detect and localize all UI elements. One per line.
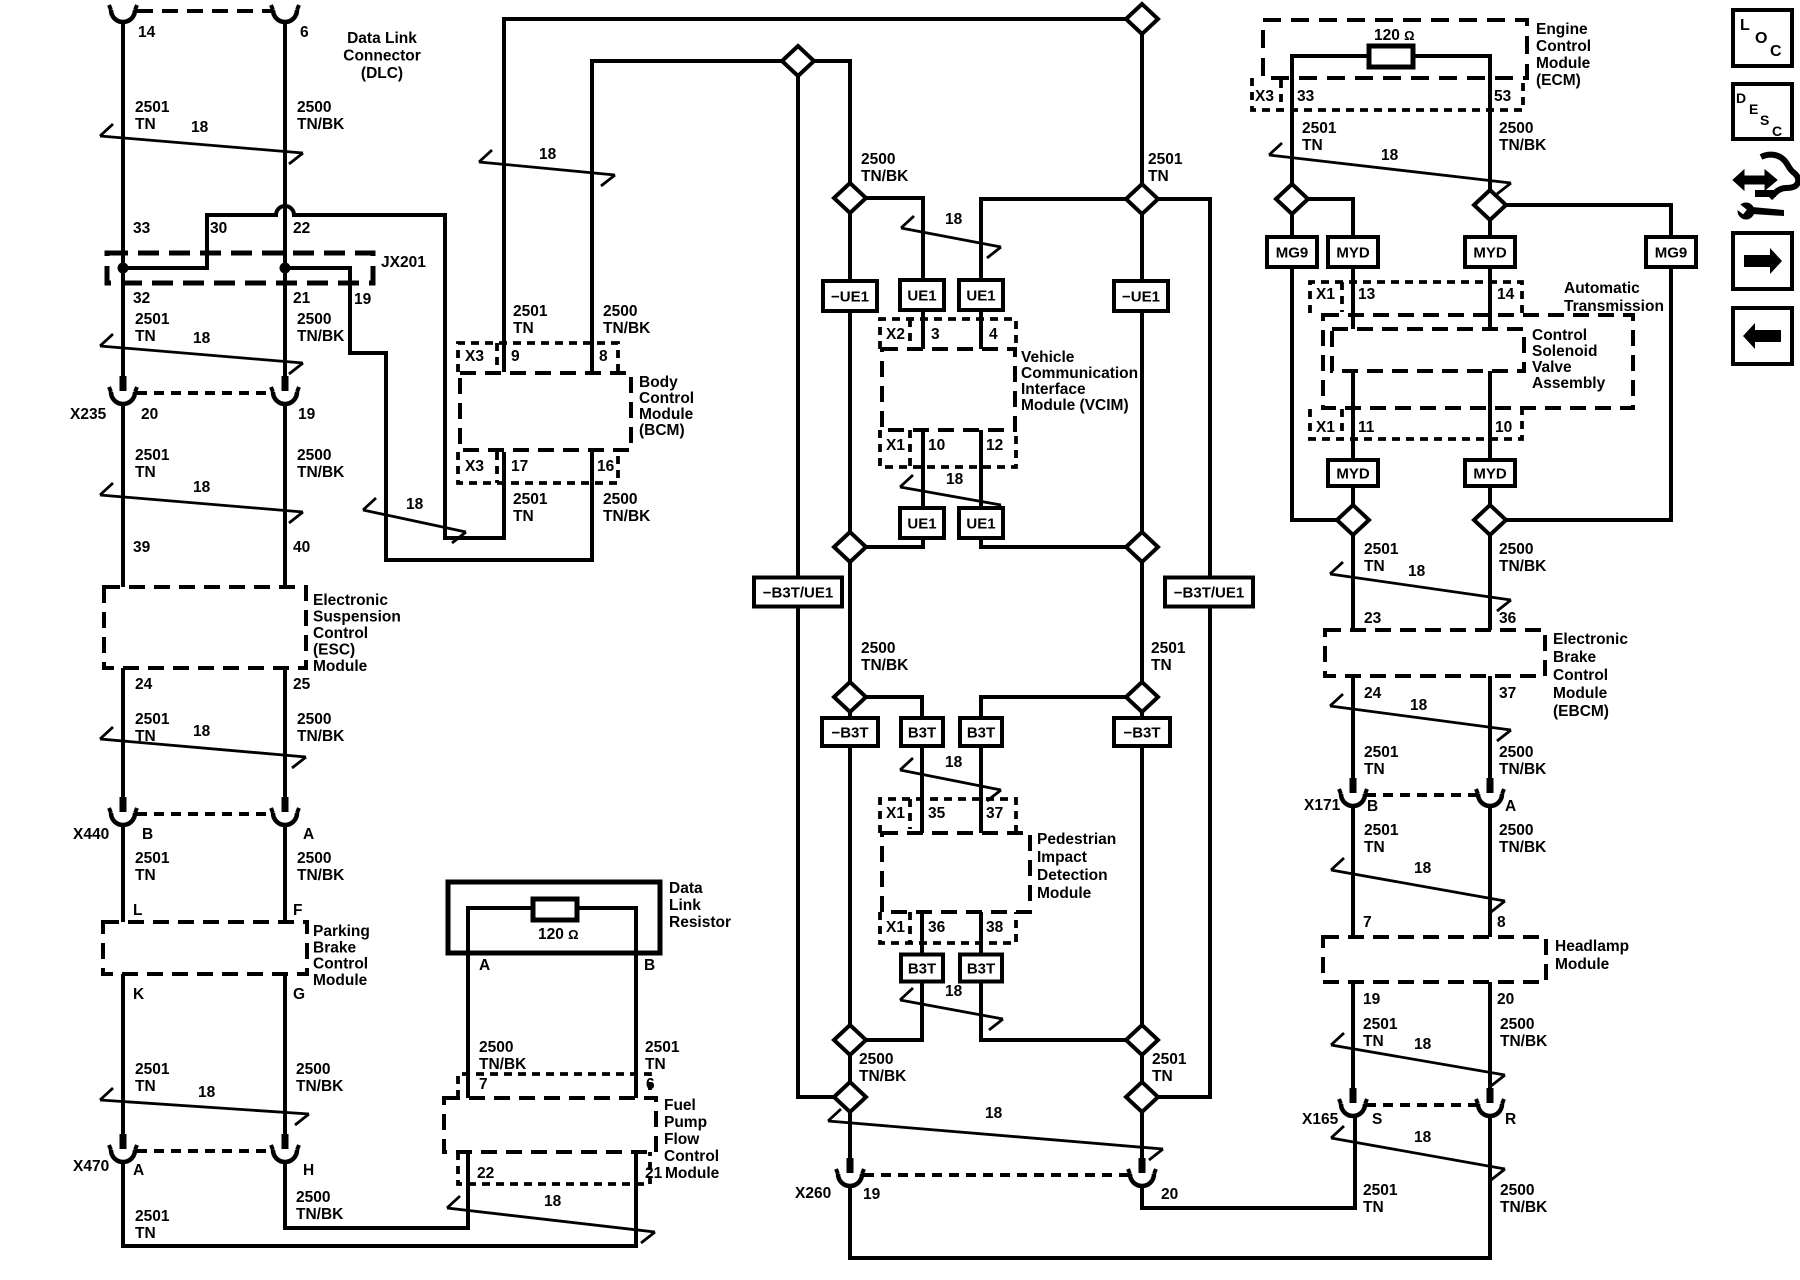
module Electronic Suspension Control (ESC) dashed box <box>104 587 306 668</box>
Fuel Pump connector top pin box <box>458 1074 650 1098</box>
svg-text:18: 18 <box>544 1193 562 1210</box>
svg-text:2501: 2501 <box>135 711 170 728</box>
junction diamond B3T lower right <box>1126 1025 1158 1055</box>
legend icon harness routing (double arrow with hook and wrench) <box>1733 155 1798 220</box>
junction splice on 2501 TN at JX201 pin 33 <box>118 263 129 274</box>
wire size 18 slash (VCIM pins 10/12) <box>900 471 1001 516</box>
svg-text:14: 14 <box>138 24 156 41</box>
wire size 18 slash (above X165) <box>1331 1033 1505 1086</box>
svg-text:B3T: B3T <box>967 725 995 742</box>
svg-text:TN: TN <box>1364 558 1385 575</box>
junction diamond B3T right <box>1126 682 1158 712</box>
svg-text:L: L <box>1740 17 1750 34</box>
wire branch to MYD left <box>1292 199 1353 237</box>
wire JX201 pin 19 to BCM pin 16 (2500 TN/BK) <box>285 268 592 560</box>
svg-text:2500: 2500 <box>1499 744 1533 761</box>
module Pedestrian Impact Detection dashed box <box>882 833 1030 912</box>
svg-text:11: 11 <box>1358 419 1375 436</box>
svg-text:Control: Control <box>664 1148 719 1165</box>
wire size 18 slash (Pedestrian pins 35/37) <box>900 754 1001 801</box>
Pedestrian connector X1 top pin box <box>880 799 1016 833</box>
svg-text:Module: Module <box>1037 885 1092 902</box>
svg-text:2500: 2500 <box>297 311 331 328</box>
svg-text:2501: 2501 <box>645 1039 680 1056</box>
connector X235 pin 19 terminal <box>271 376 299 404</box>
svg-text:6: 6 <box>300 24 309 41</box>
junction diamond ECM 2501 TN branch <box>1276 184 1308 214</box>
svg-text:TN/BK: TN/BK <box>1499 558 1547 575</box>
svg-text:(DLC): (DLC) <box>361 65 403 82</box>
svg-text:TN: TN <box>1364 839 1385 856</box>
svg-text:Control: Control <box>313 956 368 973</box>
net label box -B3T right <box>1114 718 1170 746</box>
svg-text:2500: 2500 <box>297 99 331 116</box>
svg-text:−B3T: −B3T <box>831 725 868 742</box>
net label box MYD lower left <box>1328 460 1378 486</box>
svg-text:2501: 2501 <box>1152 1051 1187 1068</box>
svg-text:O: O <box>1755 30 1767 47</box>
svg-text:20: 20 <box>1497 991 1514 1008</box>
wire MYD right to solenoid pin 14 <box>1488 267 1492 329</box>
wire MG9 left down to diamond row <box>1292 267 1337 520</box>
divider X2 pin box <box>908 319 912 349</box>
VCIM connector X1 pin box <box>880 430 1016 467</box>
wire branch to Pedestrian pin 35 <box>850 697 922 718</box>
svg-text:Connector: Connector <box>343 48 421 65</box>
divider X3 bottom pin box <box>495 452 499 483</box>
wire 2501 TN X171 pin B to Headlamp pin 7 <box>1351 806 1355 937</box>
svg-text:18: 18 <box>1410 697 1428 714</box>
legend icon LOC box <box>1733 10 1792 66</box>
wire 2501 TN resistor B to Fuel Pump pin 6 <box>634 951 638 1098</box>
wire ECM internal left <box>1292 56 1369 110</box>
svg-text:7: 7 <box>1363 914 1372 931</box>
wire 2500 TN/BK center rail (left) <box>848 198 852 1158</box>
svg-text:2500: 2500 <box>1499 120 1533 137</box>
wire 2501 TN X440 to Parking Brake pin L <box>121 825 125 922</box>
svg-text:21: 21 <box>293 290 311 307</box>
wire size 18 slash (above EBCM) <box>1330 562 1511 611</box>
svg-text:2500: 2500 <box>296 1189 330 1206</box>
svg-text:Pump: Pump <box>664 1114 707 1131</box>
svg-text:MYD: MYD <box>1336 245 1370 262</box>
wire branch rail -B3T/UE1 left <box>798 61 850 1097</box>
svg-text:Resistor: Resistor <box>669 914 731 931</box>
svg-text:37: 37 <box>1499 685 1516 702</box>
divider X3 top pin box <box>495 343 499 372</box>
svg-text:18: 18 <box>1381 147 1399 164</box>
junction diamond rail join right <box>1126 1082 1158 1112</box>
svg-text:TN/BK: TN/BK <box>297 728 345 745</box>
svg-text:2501: 2501 <box>1363 1182 1398 1199</box>
svg-text:18: 18 <box>191 119 209 136</box>
svg-text:B3T: B3T <box>967 961 995 978</box>
svg-text:X1: X1 <box>886 805 905 822</box>
net label box MYD right <box>1465 237 1515 267</box>
wire VCIM pin 10 to UE1 <box>921 430 925 508</box>
connector X235 pin 20 terminal <box>109 376 137 404</box>
svg-text:2500: 2500 <box>861 640 895 657</box>
net label box B3T pin35 <box>901 718 943 746</box>
module Body Control Module (BCM) dashed box <box>460 373 631 450</box>
wire size 18 slash (above X470) <box>100 1084 309 1125</box>
svg-text:18: 18 <box>945 754 963 771</box>
svg-text:2501: 2501 <box>135 311 170 328</box>
svg-text:18: 18 <box>945 983 963 1000</box>
connector X171 pin B terminal <box>1339 778 1367 806</box>
svg-text:MYD: MYD <box>1473 245 1507 262</box>
svg-text:Control: Control <box>313 625 368 642</box>
X171 dashed tie line <box>1366 793 1477 797</box>
AT connector X1 bottom pin box <box>1310 409 1522 439</box>
svg-text:Brake: Brake <box>1553 649 1596 666</box>
DLC connector dashed tie line <box>137 9 271 13</box>
junction diamond UE1 left <box>834 532 866 562</box>
wire size 18 slash (VCIM pins 3/4) <box>901 211 1001 258</box>
svg-text:Detection: Detection <box>1037 867 1108 884</box>
net label box -B3T/UE1 right <box>1165 578 1253 607</box>
svg-text:−UE1: −UE1 <box>831 289 869 306</box>
junction diamond MG9/MYD right <box>1474 505 1506 535</box>
wire size 18 slash (below X165) <box>1331 1126 1505 1180</box>
connector X165 pin S terminal <box>1339 1088 1367 1116</box>
svg-text:2501: 2501 <box>1364 744 1399 761</box>
svg-text:2500: 2500 <box>1500 1182 1534 1199</box>
svg-text:38: 38 <box>986 919 1004 936</box>
wire B3T to Pedestrian module pin 35 <box>920 746 924 833</box>
svg-text:2501: 2501 <box>135 1208 170 1225</box>
svg-text:C: C <box>1770 43 1782 60</box>
wire 2501 TN JX201 pin 32 to X235 pin 20 <box>121 268 125 376</box>
svg-text:Module: Module <box>1553 685 1608 702</box>
net label box B3T pin38 <box>960 955 1002 982</box>
svg-text:TN: TN <box>1151 657 1172 674</box>
wire B3T pin38 to rail right <box>981 982 1142 1040</box>
svg-text:33: 33 <box>133 220 151 237</box>
svg-text:2501: 2501 <box>135 1061 170 1078</box>
connector X260 pin 20 terminal <box>1128 1158 1156 1186</box>
wire MYD lower right to EBCM pin 36 <box>1488 486 1492 630</box>
svg-text:K: K <box>133 986 145 1003</box>
wire 2500 TN/BK Headlamp pin 20 to X165 pin R <box>1488 982 1492 1090</box>
wire UE1 to rail right <box>981 538 1142 547</box>
svg-text:E: E <box>1749 101 1758 117</box>
svg-text:Control: Control <box>1532 327 1587 344</box>
svg-text:X165: X165 <box>1302 1111 1339 1128</box>
svg-text:2500: 2500 <box>297 850 331 867</box>
svg-text:L: L <box>133 902 142 919</box>
svg-text:8: 8 <box>599 348 608 365</box>
Automatic Transmission connector X1 top pin box <box>1310 282 1522 313</box>
svg-text:TN/BK: TN/BK <box>297 116 345 133</box>
svg-text:Solenoid: Solenoid <box>1532 343 1597 360</box>
wire MG9 right down to diamond row <box>1506 267 1671 520</box>
svg-text:39: 39 <box>133 539 151 556</box>
svg-text:MG9: MG9 <box>1655 245 1688 262</box>
svg-text:24: 24 <box>1364 685 1382 702</box>
legend icon arrow right box <box>1733 233 1792 289</box>
svg-text:9: 9 <box>511 348 520 365</box>
svg-text:B: B <box>644 957 655 974</box>
wire 2500 TN/BK EBCM pin 37 to X171 pin A <box>1488 676 1492 780</box>
svg-text:2501: 2501 <box>1148 151 1183 168</box>
junction diamond BCM pin 8 line / left branch rail <box>782 46 814 76</box>
wire 2501 TN ESC pin 24 to X440 pin B <box>121 668 125 799</box>
svg-text:MYD: MYD <box>1473 466 1507 483</box>
svg-text:17: 17 <box>511 458 528 475</box>
wire MYD left to solenoid pin 13 <box>1351 267 1355 329</box>
wire 2500 TN/BK X260 pin 19 to X165 pin R <box>850 1116 1490 1258</box>
svg-text:TN: TN <box>1364 761 1385 778</box>
svg-text:10: 10 <box>1495 419 1512 436</box>
resistor element 120 ohm (Data Link Resistor) <box>533 899 577 920</box>
svg-text:Module: Module <box>665 1165 720 1182</box>
wire VCIM pin 4 stub <box>979 310 983 349</box>
junction splice on 2500 TN/BK at JX201 pin 22 <box>280 263 291 274</box>
wire 2500 TN/BK Parking Brake pin G to X470 pin H <box>283 974 287 1136</box>
svg-text:JX201: JX201 <box>381 254 426 271</box>
svg-text:Module (VCIM): Module (VCIM) <box>1021 397 1129 414</box>
svg-text:2501: 2501 <box>513 303 548 320</box>
svg-text:B3T: B3T <box>908 725 936 742</box>
svg-text:S: S <box>1372 1111 1382 1128</box>
svg-text:Module: Module <box>313 972 368 989</box>
svg-text:2500: 2500 <box>1499 541 1533 558</box>
wire 2501 TN Parking Brake pin K to X470 pin A <box>121 974 125 1136</box>
svg-text:G: G <box>293 986 305 1003</box>
wire B3T to Pedestrian module pin 37 <box>979 746 983 833</box>
svg-text:C: C <box>1772 123 1782 139</box>
svg-text:TN/BK: TN/BK <box>479 1056 527 1073</box>
wire Pedestrian pin 36 stub <box>920 912 924 955</box>
svg-text:TN: TN <box>135 328 156 345</box>
connector X260 pin 19 terminal <box>836 1158 864 1186</box>
svg-text:18: 18 <box>1414 860 1432 877</box>
BCM connector X3 top pin box <box>458 343 618 372</box>
svg-text:33: 33 <box>1297 88 1315 105</box>
svg-text:TN/BK: TN/BK <box>859 1068 907 1085</box>
connector X440 pin A terminal <box>271 797 299 825</box>
svg-text:19: 19 <box>863 1186 881 1203</box>
module Parking Brake Control dashed box <box>103 922 307 974</box>
junction diamond VCIM pin3 branch <box>834 183 866 213</box>
junction diamond B3T lower left <box>834 1025 866 1055</box>
divider ECM X3 pin box <box>1279 80 1283 110</box>
wire 2501 TN X470 pin A to Fuel Pump pin 21 <box>123 1152 636 1246</box>
svg-text:18: 18 <box>1408 563 1426 580</box>
wire ECM internal right <box>1413 56 1490 110</box>
wire branch to VCIM pin 3 <box>850 198 923 280</box>
wire 2500 TN/BK ESC pin 25 to X440 pin A <box>283 668 287 799</box>
svg-text:TN/BK: TN/BK <box>297 464 345 481</box>
svg-text:Control: Control <box>1553 667 1608 684</box>
wire size 18 slash (BCM 16/17 run) <box>363 496 466 543</box>
svg-text:2501: 2501 <box>135 850 170 867</box>
wire size 18 slash (above Headlamp) <box>1331 858 1505 912</box>
X165 dashed tie line <box>1366 1103 1477 1107</box>
net label box MYD left <box>1328 237 1378 267</box>
svg-text:2501: 2501 <box>1364 822 1399 839</box>
svg-text:35: 35 <box>928 805 946 822</box>
svg-text:UE1: UE1 <box>907 288 936 305</box>
svg-text:18: 18 <box>985 1105 1003 1122</box>
svg-text:12: 12 <box>986 437 1003 454</box>
svg-text:2501: 2501 <box>513 491 548 508</box>
svg-text:2500: 2500 <box>861 151 895 168</box>
svg-text:Communication: Communication <box>1021 365 1138 382</box>
svg-text:2500: 2500 <box>603 491 637 508</box>
svg-text:53: 53 <box>1494 88 1512 105</box>
svg-text:A: A <box>1505 798 1516 815</box>
divider Pedestrian X1 top <box>908 799 912 829</box>
svg-text:Flow: Flow <box>664 1131 700 1148</box>
svg-text:TN/BK: TN/BK <box>296 1078 344 1095</box>
module Electronic Brake Control Module (EBCM) dashed box <box>1325 630 1545 676</box>
svg-text:18: 18 <box>1414 1036 1432 1053</box>
svg-text:TN/BK: TN/BK <box>861 657 909 674</box>
wire branch to MG9 right <box>1490 205 1671 237</box>
svg-text:X3: X3 <box>465 348 484 365</box>
svg-text:TN/BK: TN/BK <box>1499 761 1547 778</box>
svg-text:22: 22 <box>293 220 310 237</box>
junction diamond rail join left <box>834 1082 866 1112</box>
svg-text:X3: X3 <box>1255 88 1274 105</box>
svg-text:X2: X2 <box>886 326 905 343</box>
svg-text:Module: Module <box>1536 55 1591 72</box>
svg-text:(BCM): (BCM) <box>639 422 685 439</box>
svg-text:Electronic: Electronic <box>313 592 388 609</box>
wire 2500 TN/BK X171 pin A to Headlamp pin 8 <box>1488 806 1492 937</box>
wire 2501 TN center rail (right) <box>1140 19 1144 1158</box>
svg-text:22: 22 <box>477 1165 494 1182</box>
wire MYD lower left to EBCM pin 23 <box>1351 486 1355 630</box>
svg-text:X440: X440 <box>73 826 109 843</box>
svg-text:Link: Link <box>669 897 701 914</box>
svg-text:21: 21 <box>645 1165 663 1182</box>
splice pack JX201 dashed box <box>107 253 373 283</box>
svg-text:R: R <box>1505 1111 1516 1128</box>
wire solenoid pin 10 to MYD <box>1488 371 1492 460</box>
wire 2501 TN X260 pin 20 to X165 pin S <box>1142 1116 1355 1208</box>
svg-text:X1: X1 <box>886 437 905 454</box>
svg-text:MG9: MG9 <box>1276 245 1309 262</box>
svg-text:TN/BK: TN/BK <box>1500 1033 1548 1050</box>
net label box -B3T left <box>822 718 878 746</box>
svg-text:2501: 2501 <box>1364 541 1399 558</box>
svg-text:2500: 2500 <box>296 1061 330 1078</box>
module Fuel Pump Flow Control dashed box <box>444 1098 656 1152</box>
svg-text:20: 20 <box>141 406 158 423</box>
wire 2500 TN/BK X470 pin H to Fuel Pump pin 22 <box>285 1152 468 1228</box>
connector X440 pin B terminal <box>109 797 137 825</box>
svg-text:Automatic: Automatic <box>1564 280 1640 297</box>
svg-text:S: S <box>1760 112 1769 128</box>
svg-text:Assembly: Assembly <box>1532 375 1606 392</box>
svg-text:B3T: B3T <box>908 961 936 978</box>
svg-text:25: 25 <box>293 676 311 693</box>
svg-text:Module: Module <box>313 658 368 675</box>
svg-text:(ECM): (ECM) <box>1536 72 1581 89</box>
wire 2500 TN/BK JX201 pin 21 to X235 pin 19 <box>283 268 287 376</box>
svg-text:B: B <box>1367 798 1378 815</box>
svg-text:X1: X1 <box>1316 286 1335 303</box>
divider Pedestrian X1 bottom <box>908 912 912 943</box>
X440 dashed tie line <box>137 812 271 816</box>
junction diamond B3T left <box>834 682 866 712</box>
connector X165 pin R terminal <box>1476 1088 1504 1116</box>
svg-text:Vehicle: Vehicle <box>1021 349 1075 366</box>
svg-text:TN: TN <box>1152 1068 1173 1085</box>
svg-text:X1: X1 <box>1316 419 1335 436</box>
connector DLC pin 6 terminal arc <box>271 5 299 22</box>
module Headlamp dashed box <box>1323 937 1546 982</box>
wire JX201 pin 30 to BCM pin 17 (2501 TN) with hop over TN/BK wire <box>123 206 504 538</box>
wire size 18 slash (Pedestrian pins 36/38) <box>900 983 1003 1030</box>
wire UE1 to rail left <box>850 538 923 547</box>
net label box -B3T/UE1 left <box>754 578 842 607</box>
net label box UE1 pin3 <box>900 280 944 310</box>
svg-text:18: 18 <box>946 471 964 488</box>
wire size 18 slash (below EBCM) <box>1330 694 1511 741</box>
wire size 18 slash (DLC pair) <box>100 119 303 164</box>
junction diamond VCIM pin4 branch <box>1126 184 1158 214</box>
svg-text:TN/BK: TN/BK <box>297 328 345 345</box>
Fuel Pump connector bottom pin box <box>458 1152 650 1184</box>
svg-text:TN/BK: TN/BK <box>297 867 345 884</box>
svg-text:TN/BK: TN/BK <box>603 508 651 525</box>
svg-text:Electronic: Electronic <box>1553 631 1628 648</box>
wire solenoid pin 11 to MYD <box>1351 371 1355 460</box>
svg-text:13: 13 <box>1358 286 1376 303</box>
junction diamond ECM 2500 TN/BK branch <box>1474 190 1506 220</box>
wire size 18 slash (ECM pins) <box>1269 143 1511 194</box>
wire branch rail -B3T/UE1 right <box>981 199 1210 1097</box>
svg-text:16: 16 <box>597 458 615 475</box>
svg-text:18: 18 <box>1414 1129 1432 1146</box>
wire 2500 TN/BK X235 to ESC pin 40 <box>283 404 287 587</box>
svg-text:14: 14 <box>1497 286 1515 303</box>
svg-text:Data Link: Data Link <box>347 30 417 47</box>
svg-text:32: 32 <box>133 290 150 307</box>
wire size 18 slash (X260 pair) <box>828 1105 1163 1160</box>
wire 2500 TN/BK from DLC pin 6 <box>283 22 287 376</box>
svg-text:19: 19 <box>1363 991 1381 1008</box>
svg-text:4: 4 <box>989 326 998 343</box>
svg-text:18: 18 <box>193 330 211 347</box>
svg-text:(EBCM): (EBCM) <box>1553 703 1609 720</box>
svg-text:18: 18 <box>198 1084 216 1101</box>
module Vehicle Communication Interface Module (VCIM) dashed box <box>882 349 1015 430</box>
svg-text:2500: 2500 <box>603 303 637 320</box>
svg-text:H: H <box>303 1162 314 1179</box>
svg-text:UE1: UE1 <box>966 516 995 533</box>
svg-text:36: 36 <box>928 919 946 936</box>
svg-text:7: 7 <box>479 1076 488 1093</box>
svg-text:18: 18 <box>193 723 211 740</box>
module Engine Control Module (ECM) dashed box <box>1263 20 1527 78</box>
svg-text:TN: TN <box>135 116 156 133</box>
net label box UE1 pin4 <box>959 280 1003 310</box>
svg-text:Body: Body <box>639 374 678 391</box>
wire size 18 slash (BCM pins 9/8) <box>479 146 615 186</box>
svg-text:Brake: Brake <box>313 939 356 956</box>
svg-text:2500: 2500 <box>859 1051 893 1068</box>
component Data Link Resistor outer box <box>448 882 660 953</box>
junction diamond top bus / 2501 TN rail <box>1126 4 1158 34</box>
svg-text:TN: TN <box>513 508 534 525</box>
wire 2501 TN from DLC pin 14 <box>121 22 125 376</box>
wire branch to Pedestrian pin 37 <box>981 697 1142 718</box>
